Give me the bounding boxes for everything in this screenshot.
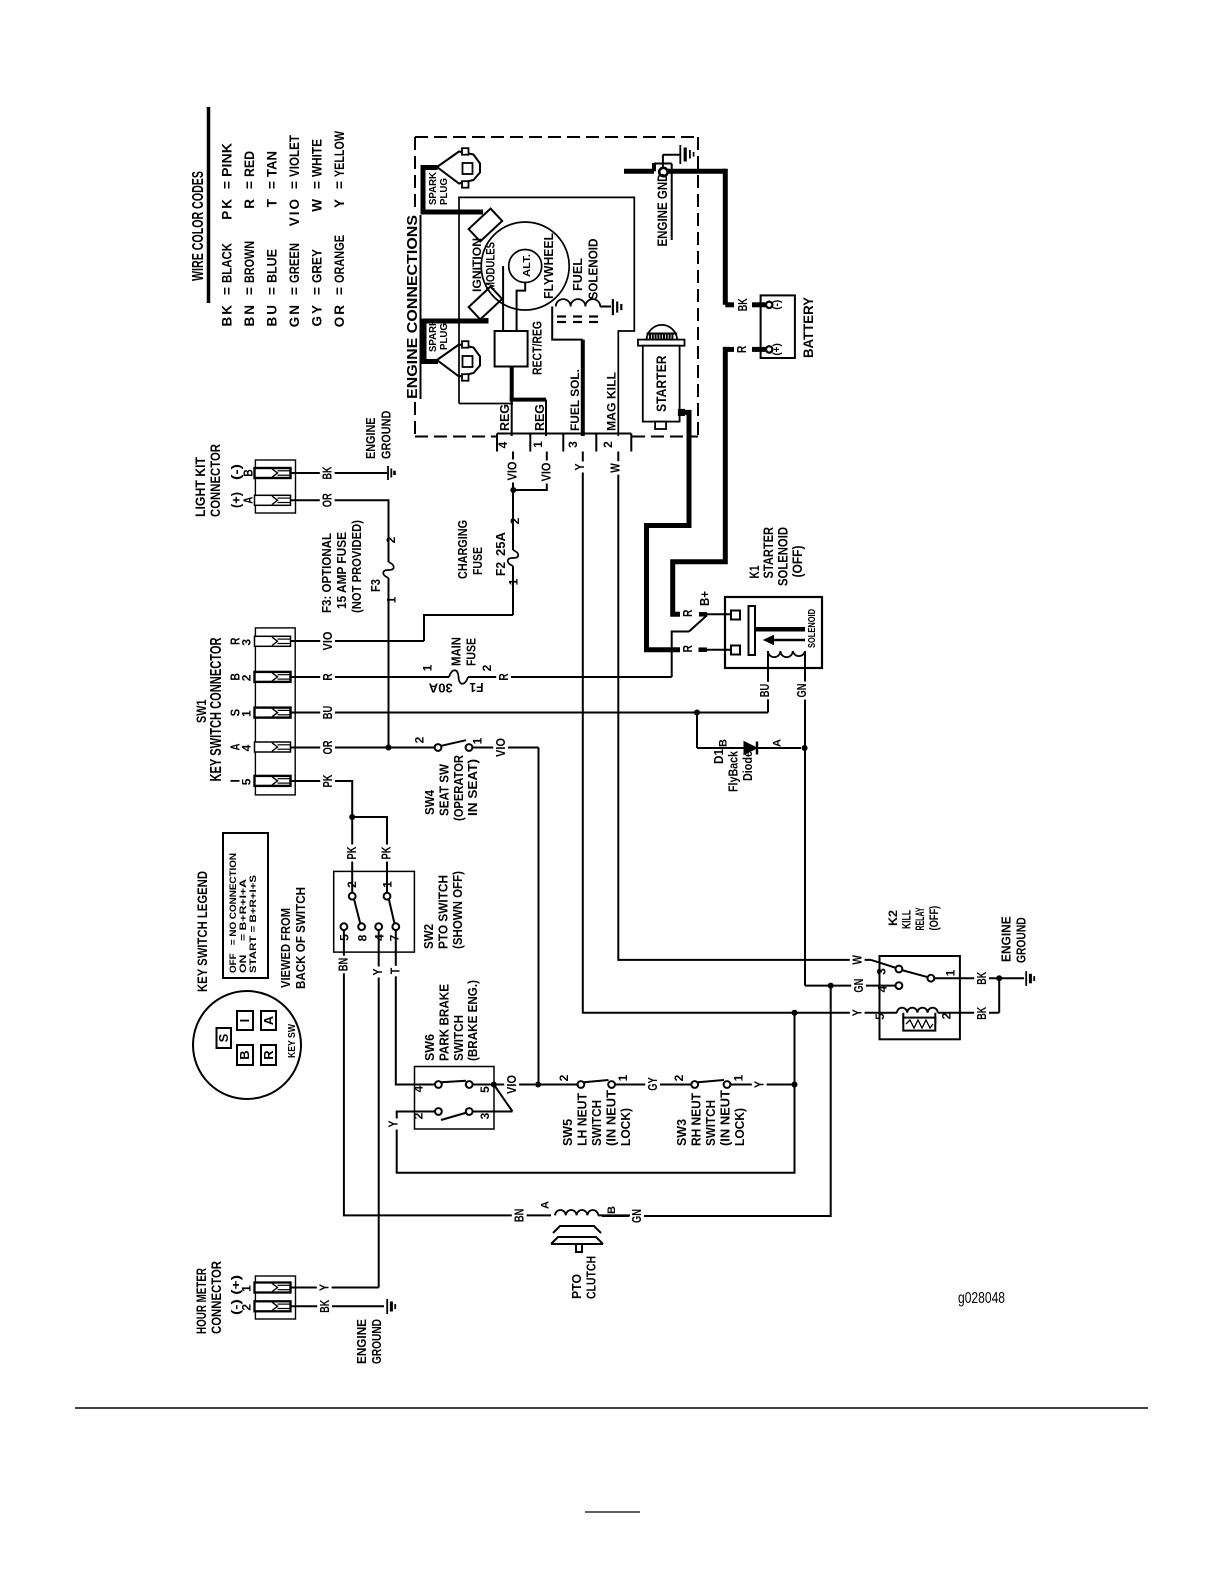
svg-text:GN: GN bbox=[852, 979, 866, 993]
wire BU from SW1 pin1 bbox=[291, 712, 769, 714]
light kit pin B bbox=[255, 468, 291, 478]
svg-text:BU: BU bbox=[321, 706, 335, 720]
wire VIO from pin 4 bbox=[512, 452, 514, 491]
svg-text:VIO: VIO bbox=[540, 462, 554, 481]
charging fuse F2 bbox=[512, 490, 514, 550]
svg-text:OR: OR bbox=[321, 741, 335, 755]
spark plug 1 bbox=[437, 152, 480, 184]
wire BN SW2 pin5 to PTO clutch bbox=[344, 930, 551, 1215]
svg-text:=: = bbox=[242, 181, 257, 189]
svg-text:FUEL: FUEL bbox=[571, 258, 585, 291]
svg-text:1: 1 bbox=[240, 710, 254, 717]
wire OR from SW1 pin4 to seat switch SW4 bbox=[291, 747, 436, 749]
svg-text:FLYWHEEL: FLYWHEEL bbox=[541, 233, 556, 299]
engine enclosure rect bbox=[459, 197, 634, 436]
svg-text:BK: BK bbox=[220, 303, 235, 327]
svg-text:1: 1 bbox=[507, 578, 521, 585]
svg-text:BATTERY: BATTERY bbox=[800, 296, 816, 358]
svg-text:PARK BRAKE: PARK BRAKE bbox=[437, 984, 452, 1061]
svg-text:BK: BK bbox=[321, 467, 335, 480]
GN net junction bbox=[805, 985, 831, 987]
PTO clutch plates bbox=[553, 1226, 601, 1233]
svg-text:T: T bbox=[388, 967, 402, 974]
hour meter bracket bbox=[255, 1276, 295, 1319]
wire GN PTO clutch bbox=[598, 1214, 630, 1216]
svg-text:BK: BK bbox=[975, 1007, 989, 1020]
SW1 pin 5 (I) bbox=[255, 776, 291, 786]
SW6 park brake switch box bbox=[415, 1067, 495, 1130]
K1 lower terminal bbox=[731, 646, 740, 655]
svg-text:BROWN: BROWN bbox=[242, 241, 257, 283]
fuse F3 bbox=[383, 562, 394, 578]
svg-text:1: 1 bbox=[381, 881, 395, 888]
footer mark bbox=[585, 1511, 640, 1513]
svg-text:=: = bbox=[310, 181, 325, 189]
svg-text:BK: BK bbox=[736, 298, 750, 311]
svg-text:Y: Y bbox=[371, 968, 385, 976]
svg-text:A: A bbox=[261, 1015, 276, 1025]
svg-text:B+: B+ bbox=[697, 591, 712, 606]
svg-text:ALT.: ALT. bbox=[521, 254, 533, 277]
svg-text:FUSE: FUSE bbox=[470, 547, 485, 575]
svg-text:W: W bbox=[608, 463, 622, 473]
wire Y SW6 pin2 bottom run bbox=[397, 1013, 795, 1173]
svg-text:5: 5 bbox=[240, 778, 254, 785]
svg-text:(-): (-) bbox=[772, 300, 783, 310]
svg-text:=: = bbox=[287, 181, 302, 189]
svg-text:IGNITION: IGNITION bbox=[472, 238, 484, 292]
svg-text:BN: BN bbox=[242, 303, 257, 327]
svg-text:1: 1 bbox=[240, 1285, 254, 1292]
ignition module 2 bbox=[469, 287, 503, 320]
svg-text:OR: OR bbox=[332, 303, 347, 327]
svg-text:7: 7 bbox=[387, 934, 401, 941]
svg-text:TAN: TAN bbox=[265, 151, 280, 177]
svg-text:1: 1 bbox=[471, 737, 485, 744]
svg-text:=: = bbox=[242, 287, 257, 295]
svg-text:5: 5 bbox=[873, 1013, 887, 1020]
svg-text:SOLENOID: SOLENOID bbox=[806, 609, 818, 648]
svg-text:2: 2 bbox=[345, 881, 359, 888]
svg-text:GROUND: GROUND bbox=[369, 1319, 384, 1364]
K1 contact feed wires bbox=[680, 608, 695, 620]
svg-text:3: 3 bbox=[875, 968, 889, 975]
svg-text:B: B bbox=[718, 739, 730, 747]
svg-text:2: 2 bbox=[240, 674, 254, 681]
K2 engine ground bbox=[999, 977, 1024, 979]
svg-text:=: = bbox=[220, 181, 235, 189]
svg-text:PLUG: PLUG bbox=[438, 178, 450, 205]
svg-text:LOCK): LOCK) bbox=[732, 1108, 747, 1146]
svg-text:RELAY: RELAY bbox=[913, 908, 927, 931]
K2 relay box bbox=[880, 956, 960, 1039]
svg-text:2: 2 bbox=[384, 536, 398, 543]
wire Y hour meter to SW2 bbox=[291, 1287, 379, 1289]
svg-text:30A: 30A bbox=[429, 681, 453, 695]
svg-text:SEAT SW: SEAT SW bbox=[437, 763, 452, 816]
svg-text:BU: BU bbox=[265, 303, 280, 327]
svg-text:BK: BK bbox=[318, 1300, 332, 1313]
starter terminal bbox=[678, 409, 684, 415]
svg-text:FUEL SOL.: FUEL SOL. bbox=[568, 369, 582, 431]
svg-text:F3: F3 bbox=[369, 579, 383, 592]
svg-text:(OFF): (OFF) bbox=[789, 546, 805, 578]
svg-text:VIO: VIO bbox=[506, 461, 520, 480]
bottom rule bbox=[75, 1407, 1148, 1409]
svg-text:R: R bbox=[681, 610, 695, 618]
thick BK wire to battery bbox=[723, 169, 728, 305]
svg-text:VIO: VIO bbox=[321, 631, 335, 650]
svg-text:4: 4 bbox=[412, 1085, 426, 1092]
svg-text:R: R bbox=[242, 197, 257, 209]
svg-text:W: W bbox=[310, 197, 325, 212]
K2 BK output wires bbox=[938, 1012, 999, 1014]
svg-text:PTO SWITCH: PTO SWITCH bbox=[436, 875, 451, 949]
svg-text:GY: GY bbox=[646, 1077, 660, 1091]
svg-text:=: = bbox=[265, 287, 280, 295]
svg-text:=: = bbox=[332, 181, 347, 189]
light kit ground symbol bbox=[387, 466, 389, 480]
svg-text:PK: PK bbox=[380, 847, 394, 860]
svg-text:2: 2 bbox=[601, 441, 615, 448]
engine connector bracket bbox=[497, 433, 631, 435]
svg-text:VIEWED FROM: VIEWED FROM bbox=[278, 908, 293, 988]
SW3 RH neutral switch bbox=[691, 1081, 698, 1088]
svg-text:LIGHT KIT: LIGHT KIT bbox=[192, 457, 208, 517]
svg-text:OR: OR bbox=[321, 493, 335, 507]
svg-text:R: R bbox=[261, 1050, 276, 1060]
svg-text:2: 2 bbox=[557, 1074, 571, 1081]
starter motor bbox=[647, 325, 678, 340]
wire T SW2 pin7 to SW6 bbox=[396, 930, 435, 1084]
thick R wire battery to K1 bbox=[725, 347, 734, 352]
svg-text:CHARGING: CHARGING bbox=[455, 520, 470, 579]
svg-text:A: A bbox=[241, 496, 256, 503]
wire BU K1 coil to SW1 pin S bbox=[767, 651, 769, 713]
key switch circle bbox=[193, 991, 301, 1099]
wire Y SW2 pin4 to hour meter bbox=[378, 930, 380, 1287]
svg-text:(SHOWN OFF): (SHOWN OFF) bbox=[450, 871, 465, 949]
svg-text:(IN NEUT: (IN NEUT bbox=[604, 1090, 619, 1146]
svg-text:1: 1 bbox=[732, 1074, 746, 1081]
svg-text:ENGINE CONNECTIONS: ENGINE CONNECTIONS bbox=[404, 215, 421, 399]
svg-text:BLUE: BLUE bbox=[265, 249, 280, 283]
svg-text:BLACK: BLACK bbox=[220, 243, 235, 283]
svg-text:8: 8 bbox=[355, 934, 369, 941]
SW6 output wiring bbox=[473, 1084, 535, 1086]
ignition module 1 bbox=[469, 209, 503, 242]
svg-text:3: 3 bbox=[566, 441, 580, 448]
light kit bracket bbox=[255, 460, 295, 513]
wire Y engine pin3 to K2 bbox=[583, 452, 876, 1013]
svg-text:4: 4 bbox=[240, 744, 254, 751]
svg-text:SW4: SW4 bbox=[422, 789, 437, 815]
svg-text:GREY: GREY bbox=[310, 249, 325, 283]
main fuse F1 on R wire bbox=[291, 676, 450, 678]
K2 coil and resistor bbox=[876, 1012, 897, 1014]
svg-text:GY: GY bbox=[310, 303, 325, 327]
svg-text:SWITCH: SWITCH bbox=[589, 1100, 604, 1146]
rectifier regulator box bbox=[495, 331, 528, 367]
wire W engine pin2 to K2 bbox=[618, 452, 871, 960]
svg-text:KILL: KILL bbox=[900, 910, 914, 929]
engine gnd terminal bbox=[624, 169, 654, 174]
svg-text:PLUG: PLUG bbox=[438, 323, 450, 350]
SW2 PTO switch box bbox=[334, 871, 415, 952]
svg-text:=: = bbox=[287, 287, 302, 295]
wire BK hour meter to ground bbox=[291, 1305, 385, 1307]
fuel sol wire to pin 3 bbox=[552, 307, 583, 340]
SW1 pin 1 (S) bbox=[255, 708, 291, 718]
svg-text:SW6: SW6 bbox=[422, 1034, 437, 1061]
wire BK light kit to ground bbox=[291, 472, 388, 474]
fuel solenoid ground bbox=[600, 306, 611, 308]
seat switch SW4 contacts bbox=[435, 744, 442, 751]
svg-text:1: 1 bbox=[531, 441, 545, 448]
svg-text:BN: BN bbox=[336, 958, 350, 972]
wire OR light kit through fuse F3 bbox=[291, 500, 389, 562]
svg-text:S: S bbox=[216, 1033, 231, 1042]
legend underline bbox=[207, 107, 211, 303]
svg-text:Y: Y bbox=[386, 1120, 400, 1128]
K1 plunger bbox=[749, 606, 756, 655]
svg-text:(NOT PROVIDED): (NOT PROVIDED) bbox=[349, 520, 364, 613]
svg-text:VIOLET: VIOLET bbox=[287, 134, 302, 177]
svg-text:F3: OPTIONAL: F3: OPTIONAL bbox=[319, 533, 334, 613]
battery bbox=[761, 295, 795, 358]
svg-text:R: R bbox=[681, 645, 695, 653]
svg-text:(+): (+) bbox=[772, 343, 783, 356]
svg-text:SWITCH: SWITCH bbox=[703, 1100, 718, 1146]
svg-text:g028048: g028048 bbox=[958, 1290, 1005, 1307]
thick REG wires bbox=[510, 367, 514, 400]
K1 switch arm bbox=[672, 632, 689, 678]
svg-text:=: = bbox=[220, 287, 235, 295]
K1 relay box bbox=[725, 597, 822, 668]
svg-text:1: 1 bbox=[616, 1074, 630, 1081]
svg-text:BK: BK bbox=[975, 972, 989, 985]
svg-text:YELLOW: YELLOW bbox=[332, 131, 347, 177]
svg-text:GN: GN bbox=[287, 303, 302, 327]
svg-text:LOCK): LOCK) bbox=[618, 1108, 633, 1146]
svg-text:PTO: PTO bbox=[569, 1274, 584, 1299]
svg-text:START = B+R+I+S: START = B+R+I+S bbox=[248, 875, 259, 973]
key switch legend box bbox=[223, 833, 268, 978]
svg-text:2: 2 bbox=[672, 1074, 686, 1081]
svg-text:VIO: VIO bbox=[287, 197, 302, 226]
svg-text:MAG KILL: MAG KILL bbox=[605, 372, 619, 431]
svg-text:ORANGE: ORANGE bbox=[332, 235, 347, 283]
svg-text:SWITCH: SWITCH bbox=[451, 1015, 466, 1061]
K1 arrow bbox=[772, 639, 805, 642]
K1 pin B+ terminal bbox=[731, 611, 740, 620]
svg-text:BACK OF SWITCH: BACK OF SWITCH bbox=[293, 887, 308, 989]
svg-text:RED: RED bbox=[242, 151, 257, 177]
alternator circle bbox=[509, 250, 542, 283]
SW1 bracket bbox=[255, 628, 295, 795]
svg-text:ENGINE GND: ENGINE GND bbox=[654, 174, 670, 247]
svg-text:B: B bbox=[606, 1206, 618, 1214]
svg-text:5: 5 bbox=[478, 1086, 492, 1093]
svg-text:FlyBack: FlyBack bbox=[726, 750, 741, 792]
svg-text:2: 2 bbox=[412, 1112, 426, 1119]
wire PK from SW1 pin5 to SW2 bbox=[291, 781, 353, 893]
svg-text:A: A bbox=[772, 739, 784, 747]
svg-text:T: T bbox=[265, 197, 280, 207]
svg-text:D1: D1 bbox=[711, 749, 726, 764]
svg-text:WHITE: WHITE bbox=[310, 139, 325, 177]
thick starter cable bbox=[647, 412, 690, 649]
svg-text:=: = bbox=[332, 287, 347, 295]
SW5 LH neutral switch bbox=[538, 1084, 577, 1086]
flywheel circle bbox=[481, 222, 569, 310]
svg-text:BN: BN bbox=[513, 1209, 527, 1223]
SW1 pin 4 (A) bbox=[255, 742, 291, 752]
svg-text:25A: 25A bbox=[494, 532, 508, 556]
svg-text:1: 1 bbox=[421, 664, 435, 671]
svg-text:SOLENOID: SOLENOID bbox=[587, 239, 601, 300]
hour meter pin 2 bbox=[255, 1301, 291, 1311]
engine gnd ground symbol bbox=[662, 155, 664, 168]
svg-text:=: = bbox=[265, 181, 280, 189]
PTO clutch coil bbox=[555, 1210, 598, 1215]
wire VIO from SW1 pin3 bbox=[291, 640, 425, 642]
svg-text:SW2: SW2 bbox=[421, 924, 436, 949]
svg-text:K2: K2 bbox=[886, 910, 900, 926]
svg-text:4: 4 bbox=[496, 441, 510, 448]
svg-text:W: W bbox=[851, 955, 865, 965]
svg-text:2: 2 bbox=[940, 1012, 954, 1019]
svg-text:KEY SW: KEY SW bbox=[286, 1024, 298, 1058]
svg-text:GROUND: GROUND bbox=[1014, 917, 1029, 963]
svg-text:MAIN: MAIN bbox=[449, 637, 464, 666]
svg-text:IN SEAT): IN SEAT) bbox=[465, 759, 480, 816]
svg-text:1: 1 bbox=[944, 969, 958, 976]
hour meter ground symbol bbox=[386, 1299, 388, 1314]
svg-text:I: I bbox=[237, 1019, 252, 1023]
svg-text:VIO: VIO bbox=[505, 1075, 519, 1094]
svg-text:REG: REG bbox=[533, 404, 547, 431]
svg-text:R: R bbox=[321, 673, 335, 681]
svg-text:(IN NEUT: (IN NEUT bbox=[718, 1090, 733, 1146]
svg-text:Y: Y bbox=[318, 1283, 332, 1291]
svg-text:4: 4 bbox=[876, 985, 890, 992]
svg-text:R: R bbox=[735, 346, 749, 354]
svg-text:BU: BU bbox=[758, 684, 772, 698]
svg-text:(BRAKE ENG.): (BRAKE ENG.) bbox=[465, 980, 480, 1061]
hour meter pin 1 bbox=[255, 1283, 291, 1293]
svg-text:GROUND: GROUND bbox=[379, 411, 394, 459]
svg-text:VIO: VIO bbox=[494, 738, 508, 757]
K1 coil bbox=[768, 651, 805, 657]
svg-text:(OFF): (OFF) bbox=[927, 906, 941, 931]
svg-text:SW1: SW1 bbox=[193, 699, 209, 723]
svg-text:F1: F1 bbox=[469, 680, 483, 694]
svg-text:3: 3 bbox=[478, 1112, 492, 1119]
svg-text:Y: Y bbox=[753, 1080, 767, 1088]
svg-text:WIRE COLOR CODES: WIRE COLOR CODES bbox=[190, 171, 207, 281]
svg-text:RECT/REG: RECT/REG bbox=[531, 321, 545, 375]
svg-text:2: 2 bbox=[413, 736, 427, 743]
engine connections dashed box bbox=[415, 136, 698, 138]
svg-text:GN: GN bbox=[630, 1209, 644, 1223]
fuel solenoid coil bbox=[556, 299, 600, 306]
wire spark plug 1 to ignition module 1 bbox=[423, 168, 483, 213]
svg-text:2: 2 bbox=[480, 664, 494, 671]
svg-text:CONNECTOR: CONNECTOR bbox=[208, 1261, 224, 1334]
SW1 pin 3 (R) bbox=[255, 636, 291, 646]
svg-text:Y: Y bbox=[851, 1009, 865, 1017]
svg-text:PK: PK bbox=[220, 197, 235, 220]
svg-text:PK: PK bbox=[321, 775, 335, 788]
K2 pin4 GN wire bbox=[831, 985, 896, 987]
svg-text:=: = bbox=[310, 287, 325, 295]
svg-text:ENGINE: ENGINE bbox=[354, 1319, 369, 1364]
svg-text:2: 2 bbox=[508, 517, 522, 524]
svg-text:ENGINE: ENGINE bbox=[363, 417, 378, 459]
svg-text:GREEN: GREEN bbox=[287, 243, 302, 283]
wire spark plug 2 to ignition module 2 bbox=[424, 318, 486, 362]
diode D1 flyback bbox=[696, 713, 698, 749]
svg-text:Diode: Diode bbox=[740, 751, 755, 781]
svg-text:15 AMP FUSE: 15 AMP FUSE bbox=[334, 532, 349, 609]
svg-text:KEY SWITCH CONNECTOR: KEY SWITCH CONNECTOR bbox=[208, 637, 225, 781]
svg-text:A: A bbox=[540, 1201, 552, 1209]
svg-text:Y: Y bbox=[332, 197, 347, 208]
svg-text:SW5: SW5 bbox=[560, 1119, 575, 1146]
svg-text:2: 2 bbox=[240, 1304, 254, 1311]
svg-text:REG: REG bbox=[498, 404, 512, 431]
svg-text:1: 1 bbox=[385, 596, 399, 603]
svg-text:RH NEUT: RH NEUT bbox=[689, 1093, 704, 1146]
svg-text:R: R bbox=[497, 673, 511, 681]
svg-text:FUSE: FUSE bbox=[464, 638, 479, 666]
svg-text:3: 3 bbox=[240, 639, 254, 646]
svg-text:CLUTCH: CLUTCH bbox=[584, 1256, 599, 1299]
alt wires to rect/reg bbox=[502, 266, 504, 331]
svg-text:CONNECTOR: CONNECTOR bbox=[207, 444, 223, 517]
wire GN K1 coil down bbox=[804, 651, 806, 986]
svg-text:F2: F2 bbox=[494, 562, 508, 576]
svg-text:PK: PK bbox=[345, 847, 359, 860]
light kit pin A bbox=[255, 495, 291, 505]
svg-text:B: B bbox=[237, 1050, 252, 1059]
svg-text:KEY SWITCH LEGEND: KEY SWITCH LEGEND bbox=[194, 871, 210, 992]
wire VIO from pin 1 bbox=[513, 452, 547, 491]
svg-text:PINK: PINK bbox=[220, 143, 235, 177]
svg-text:STARTER: STARTER bbox=[653, 356, 669, 413]
svg-text:ENGINE: ENGINE bbox=[999, 916, 1014, 962]
svg-text:(OPERATOR: (OPERATOR bbox=[451, 754, 466, 821]
svg-text:MODULES: MODULES bbox=[486, 242, 498, 290]
svg-text:B: B bbox=[241, 469, 256, 477]
svg-text:GN: GN bbox=[795, 684, 809, 698]
wire VIO SW4 down to SW6 bbox=[538, 748, 540, 1085]
svg-text:LH NEUT: LH NEUT bbox=[575, 1093, 590, 1146]
svg-text:Y: Y bbox=[573, 463, 587, 471]
SW1 pin 2 (B) bbox=[255, 672, 291, 682]
svg-text:HOUR METER: HOUR METER bbox=[193, 1268, 209, 1334]
svg-text:SW3: SW3 bbox=[674, 1119, 689, 1146]
